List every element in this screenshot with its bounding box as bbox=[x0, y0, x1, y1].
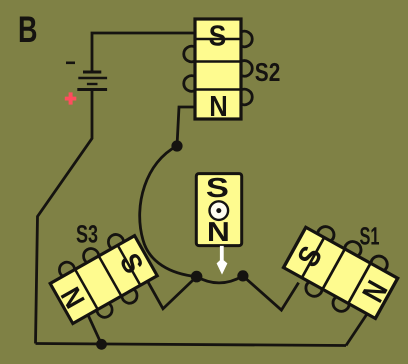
wire: node B to S3 S terminal bbox=[146, 277, 197, 309]
rotor arrow (white, pointing down) bbox=[217, 246, 228, 275]
wire: battery negative down the left side bbox=[36, 90, 93, 344]
battery plate 3 bbox=[87, 83, 98, 85]
wire: bottom rail bbox=[36, 344, 347, 346]
wire: S3 N terminal to bottom rail bbox=[85, 309, 101, 344]
battery plus sign (red) bbox=[65, 92, 77, 104]
wire: bottom rail up to S1 N terminal bbox=[346, 311, 369, 346]
node A junction dot bbox=[171, 140, 182, 151]
coil S1 bbox=[278, 217, 407, 330]
wire: node C to S1 S terminal bbox=[243, 276, 299, 310]
battery plate 4 bbox=[77, 88, 107, 91]
wire: battery positive terminal to top rail to S2 bbox=[92, 33, 196, 72]
rotor pivot circle bbox=[210, 201, 229, 220]
coil S2 bbox=[184, 19, 252, 123]
magnet rotor bbox=[196, 172, 241, 247]
battery B1 bbox=[77, 72, 107, 90]
svg-text:S2: S2 bbox=[255, 57, 280, 87]
coil S3 bbox=[41, 226, 163, 335]
battery plate 1 bbox=[83, 71, 101, 74]
node B junction dot bbox=[191, 271, 203, 283]
svg-text:B: B bbox=[18, 9, 38, 50]
battery minus sign bbox=[66, 62, 75, 65]
wire sag: node B to node C bbox=[197, 276, 243, 283]
wire arc: node A to node B bbox=[140, 146, 197, 277]
svg-text:S3: S3 bbox=[76, 221, 98, 249]
battery plate 2 bbox=[78, 77, 107, 79]
svg-text:S1: S1 bbox=[360, 223, 380, 251]
wire: S2 bottom to node A bbox=[177, 107, 196, 146]
svg-text:S: S bbox=[206, 172, 229, 203]
rotor pivot dot bbox=[216, 208, 221, 213]
svg-text:N: N bbox=[207, 216, 230, 247]
junction dot on bottom rail bbox=[96, 339, 107, 350]
node C junction dot bbox=[237, 270, 248, 281]
